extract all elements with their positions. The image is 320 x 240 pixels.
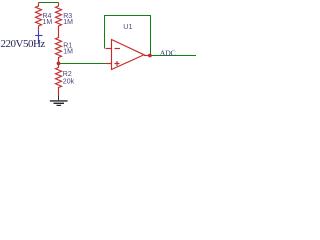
svg-text:20k: 20k [63, 79, 75, 86]
svg-text:220V50Hz: 220V50Hz [1, 38, 46, 50]
svg-text:1M: 1M [63, 49, 73, 56]
svg-text:R2: R2 [63, 71, 72, 78]
svg-text:1M: 1M [63, 19, 73, 26]
svg-text:1M: 1M [43, 19, 53, 26]
svg-text:ADC: ADC [160, 48, 176, 57]
svg-text:U1: U1 [123, 22, 132, 31]
